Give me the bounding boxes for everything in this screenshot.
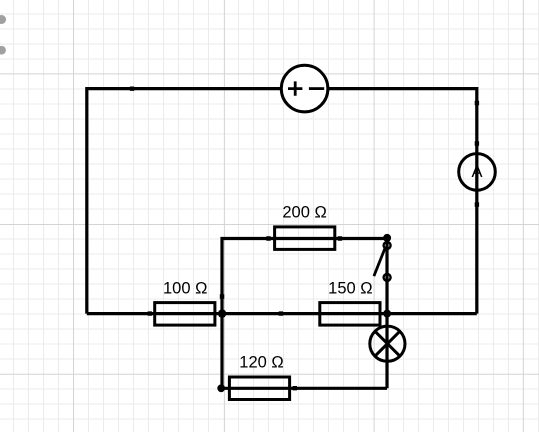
junction node bottom left: [217, 384, 225, 392]
svg-text:200 Ω: 200 Ω: [282, 204, 326, 222]
lamp L1 cross: [375, 331, 400, 356]
resistor R1 100ohm box: [155, 303, 215, 326]
switch SW1 bottom contact: [384, 274, 391, 281]
lamp L1 circle: [370, 326, 405, 361]
wire middle branch: [222, 239, 387, 314]
battery V1 circle: [281, 65, 328, 112]
resistor R3 150ohm box: [320, 303, 380, 326]
wire bottom branch left: [222, 314, 387, 389]
resistor R2 200ohm box: [275, 227, 335, 250]
wire switch vertical: [385, 239, 388, 314]
junction node right: [383, 310, 391, 318]
svg-text:100 Ω: 100 Ω: [163, 280, 207, 298]
junction node top of switch: [383, 234, 391, 242]
toolbar dot 2: [0, 46, 6, 55]
svg-text:150 Ω: 150 Ω: [328, 279, 372, 297]
battery plus sign: [288, 81, 302, 95]
switch SW1 top contact: [384, 242, 391, 249]
ammeter M1 circle: [459, 154, 496, 191]
wire outer loop: [87, 89, 477, 314]
svg-text:A: A: [471, 163, 482, 181]
wire lamp vertical: [385, 314, 388, 389]
junction node left: [218, 309, 226, 317]
toolbar dot 1: [0, 15, 6, 24]
wire main horizontal: [87, 312, 477, 315]
resistor R4 120ohm box: [229, 377, 289, 400]
wire joint nubs: [130, 87, 479, 391]
switch SW1 lever: [374, 248, 385, 276]
battery minus sign: [309, 87, 324, 90]
svg-text:120 Ω: 120 Ω: [239, 354, 283, 372]
